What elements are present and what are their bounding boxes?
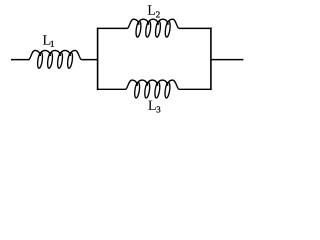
label L2 — [148, 5, 160, 17]
wire right lead — [211, 59, 244, 61]
node B right bus — [210, 28, 212, 90]
inductor L2 — [128, 19, 179, 37]
wire top rail left — [97, 27, 128, 29]
inductor L3 — [126, 80, 179, 98]
wire left lead — [11, 59, 29, 61]
label L1 — [43, 35, 54, 46]
wire L1 to node A — [81, 59, 98, 61]
wire bottom rail right — [179, 88, 212, 90]
inductor L1 — [29, 50, 81, 68]
wire top rail right — [179, 27, 212, 29]
wire bottom rail left — [97, 88, 126, 90]
node A left bus — [97, 28, 99, 90]
label L3 — [148, 101, 160, 113]
